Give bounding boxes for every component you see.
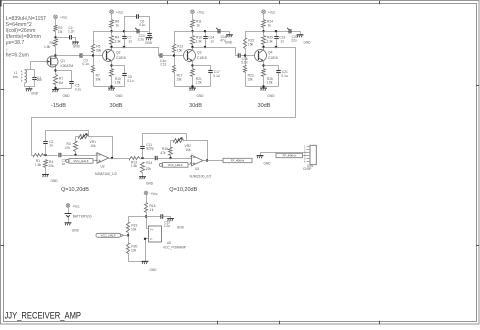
svg-text:Q=10,20dB: Q=10,20dB	[61, 187, 89, 193]
wire C14 stub	[205, 32, 207, 37]
ground stage4 decouple	[297, 35, 312, 45]
resistor R11	[191, 20, 202, 28]
svg-text:FF_40kHz: FF_40kHz	[231, 159, 245, 163]
wire nodeA right stage4	[264, 31, 301, 33]
wire C9 to rail	[124, 76, 126, 87]
node stage4 gnd	[262, 85, 264, 87]
svg-text:15k: 15k	[176, 77, 182, 81]
net label FF_40kHz out	[223, 158, 252, 162]
wire source down	[55, 68, 57, 75]
svg-text:+Vcc: +Vcc	[116, 11, 124, 15]
capacitor C4	[68, 26, 75, 40]
wire C10 stub	[149, 32, 151, 34]
wire vcc to R6	[111, 14, 113, 20]
svg-text:1k: 1k	[150, 208, 154, 212]
node op1 inv	[74, 154, 76, 156]
capacitor C6	[137, 14, 146, 27]
ground antenna tank	[26, 89, 39, 96]
stage2 gain label	[109, 103, 122, 109]
node stage1 gnd	[54, 87, 56, 89]
node stage4 A	[262, 30, 264, 32]
resistor R16	[191, 36, 203, 45]
svg-text:Q1: Q1	[61, 59, 66, 63]
wire R11 to nodeA	[192, 28, 194, 36]
filter2 Q label	[169, 187, 197, 193]
wire bottom to Vminus	[146, 239, 149, 262]
resistor R22	[244, 39, 255, 49]
resistor R17	[173, 66, 183, 82]
capacitor C7	[122, 35, 132, 43]
svg-text:GND: GND	[72, 229, 80, 233]
capacitor C18 coupling	[238, 53, 247, 64]
wire junction2 up to C11	[142, 149, 144, 159]
wire node to C22	[147, 216, 161, 218]
wire C22 to gnd	[163, 217, 171, 219]
capacitor C16	[216, 28, 227, 43]
wire VR1 to output	[89, 137, 113, 159]
wire nodeA right stage3	[193, 31, 230, 33]
wire stage4 bottom rail	[246, 86, 279, 88]
node stage1 source	[54, 69, 56, 71]
svg-text:C1815: C1815	[197, 56, 207, 60]
wire stage1 bottom rail	[56, 85, 72, 89]
capacitor C12b	[155, 156, 157, 160]
wire R17 to rail	[174, 73, 176, 87]
node op2 fb out	[206, 159, 208, 161]
svg-text:GND: GND	[197, 94, 205, 98]
svg-text:1k: 1k	[197, 24, 201, 28]
svg-text:CN3P: CN3P	[303, 167, 312, 171]
node stage2 collector	[110, 46, 112, 48]
resistor R25	[262, 36, 274, 45]
svg-text:1n: 1n	[62, 162, 66, 166]
svg-text:3.3k: 3.3k	[115, 40, 122, 44]
node stage3 base	[173, 54, 175, 56]
ground stage4	[260, 88, 275, 98]
op-amp U3 NJM2100_2/2	[190, 155, 212, 178]
svg-text:GND: GND	[73, 44, 81, 48]
wire base	[94, 55, 103, 57]
net label VCC_HALF op1	[66, 159, 93, 164]
node C14 collector	[204, 46, 206, 48]
svg-text:0.1u: 0.1u	[127, 79, 134, 83]
wire R6 to nodeA	[111, 28, 113, 36]
svg-text:1.5k: 1.5k	[114, 81, 121, 85]
ground stage3 decouple	[225, 35, 233, 45]
wire R20 to bottom	[129, 254, 146, 262]
svg-text:15k: 15k	[248, 43, 254, 47]
svg-text:l(ferrite)=80mm: l(ferrite)=80mm	[6, 34, 41, 40]
svg-text:30dB: 30dB	[109, 103, 122, 109]
node reference mid	[145, 215, 147, 217]
node stage1 drain tap	[54, 54, 56, 56]
svg-text:S=64mm^2: S=64mm^2	[6, 22, 32, 28]
svg-text:BATTERY(V): BATTERY(V)	[73, 214, 92, 218]
svg-text:GND: GND	[146, 182, 154, 186]
resistor R1	[54, 75, 64, 86]
stage1 gain label	[51, 103, 66, 109]
wire VR2 rail	[171, 140, 174, 142]
capacitor C20	[287, 28, 298, 43]
svg-text:1n: 1n	[280, 39, 284, 43]
svg-text:+Vcc: +Vcc	[72, 205, 80, 209]
node stage4 emitter	[262, 64, 264, 66]
wire node left to divider	[129, 217, 147, 223]
svg-text:10k: 10k	[131, 227, 137, 231]
power +Vcc stage3	[191, 10, 205, 15]
ground filter1	[42, 175, 58, 184]
stage3 gain label	[189, 103, 202, 109]
node stage4 base	[244, 54, 246, 56]
svg-text:0.1u: 0.1u	[213, 74, 220, 78]
ground reference decouple	[167, 219, 184, 230]
wire netbox1 to op1 plus	[94, 160, 98, 162]
capacitor C3b	[59, 153, 66, 166]
node C7 collector	[123, 46, 125, 48]
svg-text:22k: 22k	[48, 164, 54, 168]
node stage3 A	[191, 30, 193, 32]
node op1 fb out	[111, 157, 113, 159]
resistor R13	[130, 157, 140, 169]
svg-text:GND: GND	[264, 161, 272, 165]
svg-text:Q=10,20dB: Q=10,20dB	[169, 187, 197, 193]
capacitor C22	[161, 214, 170, 228]
resistor R12	[173, 45, 184, 53]
svg-text:1.5k: 1.5k	[266, 81, 273, 85]
capacitor C1	[32, 76, 42, 82]
wire R26 to rail	[263, 77, 265, 87]
wire Rf1 to junction	[44, 155, 58, 157]
net label FF_40kHz in	[276, 153, 303, 157]
svg-text:39k: 39k	[95, 77, 101, 81]
wire collector out stage4 to bus	[32, 48, 296, 156]
svg-text:GND: GND	[116, 94, 124, 98]
power +Vcc stage1	[54, 15, 68, 20]
capacitor C21	[276, 70, 288, 78]
transistor Q4 C1815	[255, 50, 278, 62]
svg-text:15k: 15k	[177, 49, 183, 53]
resistor R21	[191, 69, 203, 85]
sheet title JJY_RECEIVER_AMP	[5, 311, 82, 321]
capacitor C3	[80, 53, 89, 66]
svg-text:1k: 1k	[116, 24, 120, 28]
capacitor C10	[138, 34, 152, 42]
node filter1 in	[44, 154, 46, 156]
inductor L1 antenna	[13, 70, 27, 83]
svg-text:Q2: Q2	[116, 51, 121, 55]
wire R10 to rail	[111, 77, 113, 87]
wire emitter branch stage3	[193, 66, 211, 71]
wire op2 out	[204, 160, 224, 162]
node stage3 collector	[191, 46, 193, 48]
node divider mid	[127, 234, 129, 236]
svg-text:0.1u: 0.1u	[281, 74, 288, 78]
IC U5 VCC_POWAMP	[149, 226, 186, 249]
svg-text:Ant.: Ant.	[13, 75, 19, 79]
node stage3 gnd	[191, 85, 193, 87]
svg-text:5.1n: 5.1n	[241, 61, 248, 65]
svg-text:47k: 47k	[160, 151, 166, 155]
wire C14 to collector line	[205, 38, 207, 48]
svg-text:2.2u: 2.2u	[138, 38, 145, 42]
svg-text:39k: 39k	[96, 49, 102, 53]
node C19 collector	[275, 46, 277, 48]
wire C7 stub	[124, 32, 126, 37]
power +Vcc stage2	[110, 10, 124, 15]
wire C4 to gnd	[72, 38, 76, 42]
svg-text:K30ATM: K30ATM	[61, 64, 74, 68]
wire R3 to inv input	[75, 152, 77, 156]
wire R3 top	[75, 137, 77, 142]
svg-text:R14: R14	[146, 161, 152, 165]
stage4 gain label	[257, 103, 270, 109]
svg-text:10k: 10k	[185, 148, 191, 152]
svg-text:-15dB: -15dB	[51, 103, 66, 109]
ground stage1 bias	[72, 42, 80, 48]
wire R18 to node	[147, 213, 149, 229]
ground connector	[257, 156, 272, 166]
ground filter2	[139, 177, 154, 186]
svg-text:22k: 22k	[146, 167, 152, 171]
svg-text:μs=38.7: μs=38.7	[6, 40, 25, 46]
resistor R7	[92, 66, 102, 82]
resistor R18	[145, 203, 156, 213]
antenna coil note text	[6, 16, 48, 59]
wire to gnd stage4 right	[300, 32, 302, 35]
capacitor C9	[122, 74, 133, 84]
wire bus corner to Rf1	[32, 155, 34, 157]
resistor R4 22k	[44, 160, 55, 169]
svg-text:U2: U2	[101, 165, 105, 169]
node stage2 emitter	[110, 64, 112, 66]
resistor R2	[54, 26, 63, 34]
ground battery	[65, 223, 80, 233]
ground stage2	[108, 88, 123, 98]
svg-text:VCC_HALF: VCC_HALF	[101, 234, 116, 238]
wire R9 to collector	[111, 45, 113, 51]
wire base	[246, 55, 255, 57]
potentiometer VR1 arrow	[80, 133, 96, 148]
svg-text:1M: 1M	[58, 30, 63, 34]
potentiometer VR1 10k	[79, 135, 89, 139]
svg-text:L=839uH,N=115T: L=839uH,N=115T	[6, 16, 48, 22]
wire netbox2 to op2 plus	[189, 164, 192, 165]
svg-text:20n: 20n	[37, 78, 43, 82]
wire netbox to pin4	[303, 155, 307, 157]
wire nodeA right stage2	[112, 31, 149, 33]
svg-text:0.1u: 0.1u	[75, 87, 82, 91]
node stage2 gnd	[110, 85, 112, 87]
svg-text:10k: 10k	[90, 144, 96, 148]
node stage2 B	[123, 30, 125, 32]
wire collector out stage3	[193, 48, 239, 56]
svg-text:+Vcc: +Vcc	[150, 192, 158, 196]
svg-text:0.1u: 0.1u	[139, 23, 146, 27]
resistor R6	[110, 20, 120, 28]
wire junction up to C2	[45, 145, 47, 156]
resistor R20	[127, 244, 138, 254]
svg-text:l(coil)=26mm: l(coil)=26mm	[6, 28, 36, 34]
wire vcc to R2	[55, 19, 57, 26]
wire R2 to node	[55, 32, 57, 39]
wire nodeA left	[246, 32, 264, 39]
wire R5 to drain	[55, 47, 57, 58]
wire feedback loop right stage2	[139, 17, 150, 32]
svg-text:GND: GND	[225, 40, 233, 44]
ground stage1	[52, 90, 70, 98]
ground reference	[142, 261, 158, 272]
wire emitter down	[263, 62, 265, 69]
wire vcc to R18	[146, 195, 148, 203]
wire stage3 bottom rail	[175, 86, 211, 88]
resistor R24	[262, 20, 274, 28]
resistor R9	[110, 36, 122, 45]
power +Vcc reference	[144, 191, 158, 196]
wire battery to gnd	[68, 218, 70, 223]
capacitor C13 coupling	[160, 53, 167, 66]
wire C18 to stage4 base	[241, 55, 246, 57]
svg-text:NJM2100_1/2: NJM2100_1/2	[95, 172, 117, 176]
svg-text:C13: C13	[160, 63, 166, 67]
svg-text:1n: 1n	[210, 39, 214, 43]
node op2 inv	[169, 157, 171, 159]
wire tank bottom	[25, 80, 35, 87]
wire C19 stub	[276, 32, 278, 37]
svg-text:1.5k: 1.5k	[44, 45, 51, 49]
svg-text:+Vcc: +Vcc	[60, 16, 68, 20]
resistor R5	[44, 39, 58, 49]
svg-text:GND: GND	[63, 94, 71, 98]
svg-text:C1815: C1815	[116, 56, 126, 60]
wire to gnd stage3 right	[229, 32, 231, 35]
wire emitter down	[111, 62, 113, 69]
svg-text:30dB: 30dB	[257, 103, 270, 109]
power +Vcc stage4	[262, 10, 276, 15]
resistor R3	[65, 142, 78, 152]
capacitor C8	[135, 28, 139, 34]
svg-text:10k: 10k	[131, 248, 137, 252]
wire R19 to divider mid	[128, 233, 130, 244]
wire gnd stub connector	[260, 153, 262, 156]
wire C10 to gnd	[149, 36, 151, 38]
wire divider mid to netbox	[124, 235, 129, 237]
svg-text:GND: GND	[145, 41, 153, 45]
net label VCC_HALF ref	[96, 233, 123, 237]
svg-text:1.2n: 1.2n	[68, 30, 75, 34]
wire R15 top	[170, 141, 172, 148]
wire R13 to junction2	[140, 158, 155, 160]
wire R23 to rail	[245, 73, 247, 87]
wire R24 to nodeA	[263, 28, 265, 36]
potentiometer VR2 arrow	[175, 137, 191, 152]
svg-text:R1: R1	[59, 77, 63, 81]
wire R4 to gnd	[45, 168, 47, 175]
svg-text:1n: 1n	[128, 39, 132, 43]
svg-text:820p: 820p	[146, 146, 153, 150]
resistor R15	[160, 147, 172, 156]
svg-text:+Vcc: +Vcc	[197, 11, 205, 15]
wire collector out stage2	[112, 48, 161, 56]
resistor R26	[262, 69, 274, 85]
wire C7 to collector line	[124, 38, 126, 48]
svg-text:GND: GND	[51, 179, 59, 183]
svg-text:22u: 22u	[291, 39, 297, 43]
capacitor C17	[208, 70, 220, 78]
capacitor C19	[274, 35, 285, 43]
wire VR1 rail	[76, 136, 79, 138]
node stage1 bias	[54, 36, 56, 38]
resistor R14 22k	[141, 161, 153, 173]
wire nodeA left	[175, 32, 193, 45]
wire C21 to rail	[278, 73, 280, 87]
net label VCC_HALF op2	[159, 163, 188, 168]
wire C3b to op1	[61, 155, 98, 157]
ground stage2 decouple	[145, 38, 153, 45]
wire vcc to R24	[263, 14, 265, 20]
op-amp U2 NJM2100_1/2	[95, 153, 117, 176]
connector CN1 CN3P	[303, 145, 316, 172]
wire C12b to op2	[158, 158, 192, 160]
resistor R23	[244, 66, 254, 82]
svg-text:30dB: 30dB	[189, 103, 202, 109]
wire drain tap to C3	[56, 55, 81, 57]
svg-text:2.2u: 2.2u	[164, 224, 171, 228]
svg-text:1.5k: 1.5k	[35, 163, 42, 167]
filter1 Q label	[61, 187, 89, 193]
wire C19 to collector line	[276, 38, 278, 48]
svg-text:C1815: C1815	[268, 56, 278, 60]
wire gate	[31, 61, 48, 63]
svg-text:GND: GND	[150, 268, 158, 272]
wire vcc to battery	[68, 208, 70, 214]
transistor Q1 2SK30ATM	[47, 56, 73, 68]
svg-text:Q4: Q4	[268, 51, 273, 55]
wire R5 to base node	[93, 53, 95, 66]
svg-text:↓: ↓	[6, 46, 9, 52]
wire tank riser to gate	[30, 62, 32, 70]
wire op1 out	[109, 158, 130, 160]
potentiometer VR2 10k	[174, 139, 184, 143]
svg-text:GND: GND	[268, 94, 276, 98]
resistor Rf1	[34, 154, 44, 167]
resistor R19	[127, 223, 138, 233]
svg-text:he=6.2um: he=6.2um	[6, 52, 29, 58]
svg-text:3.3k: 3.3k	[196, 40, 203, 44]
wire emitter branch stage2	[112, 66, 125, 74]
wire C5 to rail	[71, 83, 73, 89]
svg-text:VCC_POWAMP: VCC_POWAMP	[163, 245, 186, 249]
svg-text:NJM2100_2/2: NJM2100_2/2	[190, 175, 212, 179]
wire nodeA left	[94, 32, 112, 45]
resistor R10	[110, 69, 122, 85]
node stage2 base	[92, 54, 94, 56]
svg-text:V+: V+	[150, 228, 154, 232]
svg-text:47k: 47k	[65, 146, 71, 150]
wire base	[175, 55, 184, 57]
node stage3 B	[204, 30, 206, 32]
wire R15 to inv input	[170, 156, 172, 159]
svg-text:JJY_RECEIVER_AMP: JJY_RECEIVER_AMP	[5, 311, 82, 321]
capacitor C11	[140, 143, 154, 151]
svg-text:15k: 15k	[247, 77, 253, 81]
svg-text:1k: 1k	[268, 24, 272, 28]
wire source to C5 branch	[56, 71, 72, 82]
svg-text:U3: U3	[195, 167, 199, 171]
svg-text:3.3k: 3.3k	[267, 40, 274, 44]
svg-text:1.5k: 1.5k	[195, 81, 202, 85]
svg-text:+Vcc: +Vcc	[268, 11, 276, 15]
svg-text:GND: GND	[177, 225, 185, 229]
